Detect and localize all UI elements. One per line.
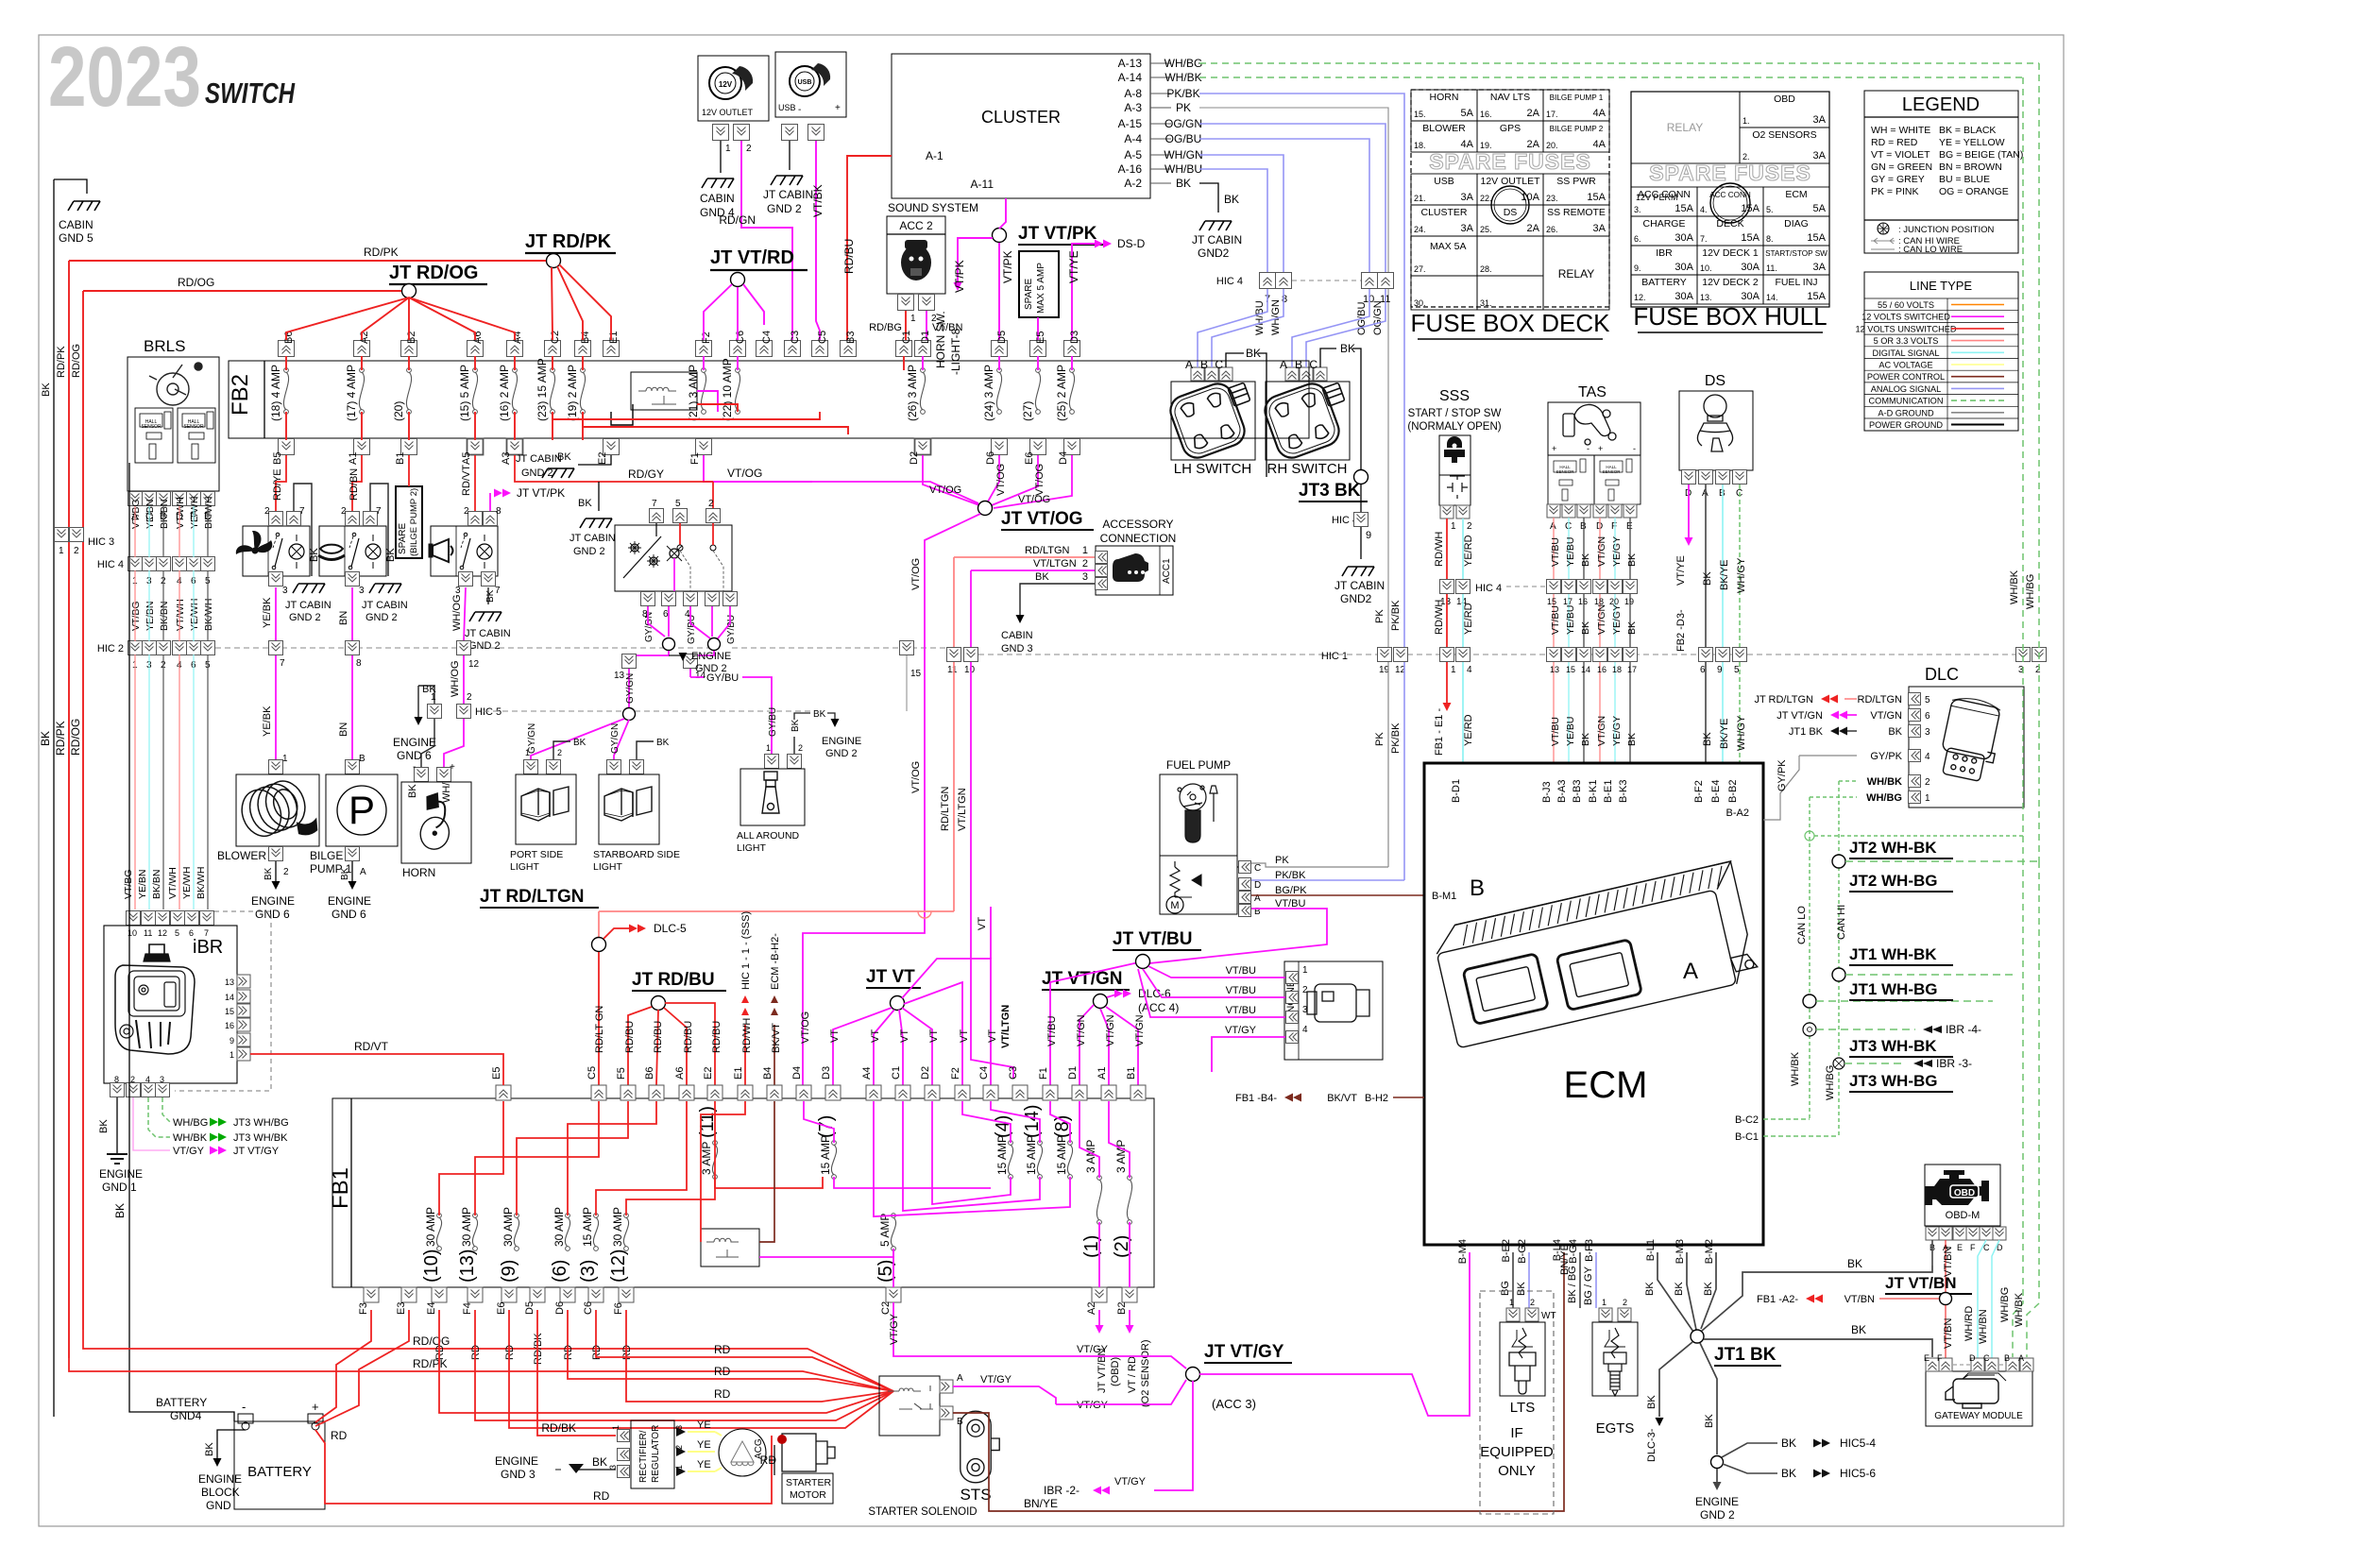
svg-text:18: 18 (1612, 665, 1622, 674)
svg-text:ALL AROUND: ALL AROUND (737, 830, 800, 841)
svg-text:3: 3 (1082, 571, 1088, 583)
wire BK TAS (1583, 518, 1585, 580)
iBR pin 14 (237, 990, 250, 1003)
svg-text:24.: 24. (1414, 225, 1426, 234)
svg-text:WH/BU: WH/BU (1254, 300, 1266, 335)
svg-text:HORN: HORN (402, 866, 435, 879)
svg-text:RD/BU: RD/BU (653, 1021, 664, 1053)
svg-text:3: 3 (160, 1075, 164, 1084)
svg-text:BK: BK (113, 1203, 127, 1218)
iBR pin 15 (237, 1004, 250, 1017)
FB2 top connector D5 (992, 341, 1008, 357)
svg-text:BN/YE: BN/YE (1024, 1497, 1058, 1510)
svg-text:E4: E4 (426, 1302, 437, 1315)
iBR VT/GY to JT VT/GY (133, 1097, 170, 1150)
svg-text:BK: BK (1702, 571, 1713, 586)
legend junction symbol (1878, 223, 1889, 234)
svg-text:RH SWITCH: RH SWITCH (1267, 461, 1348, 477)
svg-text:(3): (3) (578, 1260, 599, 1283)
svg-text:3: 3 (455, 586, 461, 596)
svg-text:13: 13 (1550, 665, 1559, 674)
svg-text:5A: 5A (1813, 203, 1827, 214)
svg-text:IBR: IBR (1656, 247, 1673, 259)
svg-text:JT VT/GN: JT VT/GN (1042, 969, 1123, 989)
svg-text:(16) 2 AMP: (16) 2 AMP (498, 365, 511, 421)
FB2 fuse (15) 5 AMP (473, 368, 478, 373)
svg-text:: JUNCTION POSITION: : JUNCTION POSITION (1898, 225, 1994, 235)
svg-text:A: A (1280, 358, 1287, 371)
svg-text:LEGEND: LEGEND (1902, 94, 1980, 115)
FB2 box (229, 361, 1309, 438)
iBR pin 13 (237, 975, 250, 988)
svg-text:5: 5 (1925, 695, 1930, 705)
svg-text:: CAN LO WIRE: : CAN LO WIRE (1898, 245, 1963, 255)
svg-text:16.: 16. (1480, 110, 1492, 119)
svg-text:A-2: A-2 (1124, 177, 1142, 190)
svg-text:BG / GY: BG / GY (1583, 1266, 1594, 1305)
svg-text:YE/GY: YE/GY (1611, 604, 1623, 635)
OBD-M box (1925, 1164, 2000, 1226)
BRLS pin C (143, 492, 157, 506)
svg-text:WH/BK: WH/BK (1164, 71, 1201, 84)
FB1 box (332, 1098, 1154, 1287)
svg-text:FB1 -A2-: FB1 -A2- (1757, 1294, 1798, 1305)
svg-text:FUSE BOX HULL: FUSE BOX HULL (1633, 302, 1827, 331)
FB1 relay wires (715, 1177, 823, 1188)
BRLS hall sensor A (135, 408, 173, 463)
svg-text:RD = RED: RD = RED (1871, 137, 1918, 148)
svg-text:GND 2: GND 2 (1700, 1508, 1735, 1521)
FB2 top connector E1 (603, 341, 620, 357)
svg-text:3 AMP: 3 AMP (1084, 1140, 1097, 1173)
FB2 fuse (25) 2 AMP (1070, 368, 1075, 373)
wire VT/OG D2 to junction (923, 455, 979, 505)
svg-text:BK: BK (98, 1119, 110, 1133)
svg-text:C6: C6 (735, 331, 746, 344)
port side light (516, 774, 576, 844)
FB2 top connector F2 (696, 341, 712, 357)
svg-text:JT3 BK: JT3 BK (1299, 481, 1361, 501)
svg-text:JT1 WH-BG: JT1 WH-BG (1849, 980, 1938, 998)
gateway dashed link (1953, 1364, 1970, 1366)
svg-text:WH/BG: WH/BG (1825, 1065, 1836, 1100)
wires BK to HIC5 (1722, 1443, 1777, 1457)
svg-text:HIC 5: HIC 5 (475, 706, 501, 718)
svg-text:JT2 WH-BG: JT2 WH-BG (1849, 872, 1938, 890)
JT cabin gnd2 below JT3 (1342, 567, 1374, 576)
wire WH/GN jog to LH B (1212, 289, 1283, 367)
FB2 bottom connector D6 (992, 439, 1008, 455)
svg-text:RD/PK: RD/PK (54, 721, 67, 756)
JT3 WH-BK junction (1803, 1023, 1816, 1036)
svg-text:RD/PK: RD/PK (364, 246, 399, 259)
svg-text:VT/YE: VT/YE (1675, 555, 1687, 586)
svg-text:C1: C1 (901, 331, 912, 344)
svg-text:12 VOLTS SWITCHED: 12 VOLTS SWITCHED (1861, 313, 1950, 322)
wire RD/BK D5 to rectifier (537, 1346, 616, 1436)
svg-text:2: 2 (264, 506, 270, 517)
svg-text:15 AMP: 15 AMP (581, 1207, 594, 1247)
deck 12v outlet circle (1491, 186, 1529, 224)
svg-text:DLC: DLC (1925, 665, 1959, 684)
svg-text:VT/GY: VT/GY (1077, 1344, 1109, 1355)
svg-text:RD: RD (331, 1429, 348, 1442)
JT VT/RD junction (731, 273, 745, 287)
svg-text:OBD: OBD (1774, 93, 1795, 105)
JT RD/PK fan to C2 B4 E1 (552, 267, 552, 340)
svg-text:20: 20 (1609, 597, 1619, 606)
FB2 top connector B6 (279, 341, 295, 357)
fuel pump lower block (1160, 856, 1237, 914)
wire BK JT1 to DLC-3 (1659, 1342, 1692, 1417)
svg-text:VT/YE: VT/YE (1067, 250, 1080, 283)
svg-text:2: 2 (1302, 985, 1308, 995)
svg-text:C: C (1983, 1353, 1990, 1363)
svg-text:RD: RD (593, 1489, 610, 1503)
svg-text:30A: 30A (1674, 232, 1693, 244)
svg-text:BG/PK: BG/PK (1275, 885, 1307, 896)
svg-text:BK: BK (1888, 726, 1902, 738)
svg-text:PK: PK (1275, 855, 1289, 866)
svg-text:11: 11 (947, 665, 958, 675)
FB1 top connector C5 (591, 1085, 606, 1100)
FB1 bottom connector F4 (467, 1287, 483, 1302)
iBR box (104, 926, 237, 1083)
svg-text:E5: E5 (491, 1067, 502, 1079)
wire GY/PK to B-A2 (1763, 756, 1799, 820)
svg-text:B-M1: B-M1 (1432, 891, 1456, 902)
svg-text:JT3 WH/BK: JT3 WH/BK (233, 1132, 288, 1144)
svg-text:PK/BK: PK/BK (1166, 87, 1199, 100)
svg-text:C3: C3 (1008, 1066, 1019, 1079)
svg-text:C2: C2 (550, 331, 561, 344)
svg-text:14.: 14. (1766, 293, 1778, 302)
wire BK TAS (1629, 518, 1631, 580)
svg-text:VT: VT (899, 1029, 910, 1043)
svg-text:VT/WH: VT/WH (167, 867, 178, 899)
svg-text:HIC 2: HIC 2 (97, 643, 124, 654)
svg-text:RD/BK: RD/BK (533, 1333, 544, 1365)
svg-text:JT VT/BU: JT VT/BU (1113, 929, 1192, 949)
FB2 fuse (27) (1036, 368, 1041, 373)
svg-text:5 AMP: 5 AMP (878, 1214, 892, 1247)
svg-text:B-M3: B-M3 (1674, 1239, 1686, 1264)
svg-text:GND 5: GND 5 (59, 231, 93, 245)
svg-text:iBR: iBR (193, 937, 223, 958)
svg-text:(NORMALY OPEN): (NORMALY OPEN) (1407, 421, 1501, 433)
wire VT/BU to F1 (1050, 961, 1143, 1085)
svg-text:ACC 2: ACC 2 (899, 219, 933, 232)
svg-text:YE/BU: YE/BU (1565, 536, 1576, 567)
svg-text:ECM: ECM (1564, 1064, 1648, 1106)
svg-text:30 AMP: 30 AMP (501, 1207, 515, 1247)
svg-text:JT VT/PK: JT VT/PK (517, 486, 565, 500)
svg-text:VT: VT (987, 1029, 998, 1043)
iBR actuator drawing (115, 944, 195, 1054)
svg-text:YE/RD: YE/RD (1463, 535, 1474, 567)
FB2 top connector C3 (785, 341, 801, 357)
svg-text:JT VT/RD: JT VT/RD (710, 247, 794, 268)
svg-text:3: 3 (1302, 1005, 1308, 1015)
svg-text:VT/PK: VT/PK (953, 260, 966, 293)
wire BN bilge pin3 to HIC2 (351, 587, 353, 641)
wire RD/OG main (83, 290, 401, 292)
wire VT/LTGN to ACC1 (971, 569, 1095, 571)
svg-text:A: A (2018, 1353, 2024, 1363)
svg-text:23.: 23. (1546, 194, 1558, 203)
svg-text:12V OUTLET: 12V OUTLET (702, 108, 754, 117)
svg-text:YE/WH: YE/WH (181, 867, 193, 899)
svg-text:HIC 4: HIC 4 (1475, 583, 1502, 594)
svg-text:VT/WH: VT/WH (175, 599, 186, 631)
fuse box hull table (1631, 92, 1829, 307)
iBR pin 16 (237, 1018, 250, 1031)
svg-text:YE/GY: YE/GY (1611, 716, 1623, 746)
BRLS column wires (134, 506, 136, 557)
svg-text:VT/GY: VT/GY (1077, 1400, 1109, 1411)
svg-text:2023: 2023 (48, 30, 201, 125)
svg-text:DIAG: DIAG (1784, 218, 1809, 229)
svg-text:3A: 3A (1813, 114, 1827, 126)
svg-text:WH/BU: WH/BU (1164, 162, 1202, 176)
wire VT/YE DS to FB2-D3 (1688, 484, 1690, 538)
svg-text:BK: BK (573, 738, 586, 748)
svg-text:WH/BG: WH/BG (173, 1117, 208, 1129)
svg-text:WH = WHITE: WH = WHITE (1871, 125, 1930, 136)
svg-text:BATTERY: BATTERY (1641, 277, 1686, 288)
svg-text:IBR -3-: IBR -3- (1936, 1057, 1972, 1070)
svg-text:+: + (450, 762, 455, 773)
svg-text:JT VT: JT VT (866, 967, 915, 987)
nav switch BK gnd (598, 482, 600, 511)
svg-text:3: 3 (608, 1465, 618, 1470)
svg-text:JT RD/LTGN: JT RD/LTGN (480, 887, 584, 907)
svg-text:15 AMP: 15 AMP (819, 1135, 832, 1175)
wire BK horn pin7 to gnd (487, 587, 489, 604)
svg-text:12.: 12. (1634, 293, 1646, 302)
svg-text:OG/BU: OG/BU (1165, 132, 1202, 145)
svg-text:SWITCH: SWITCH (205, 76, 295, 110)
svg-text:DLC-5: DLC-5 (654, 922, 687, 935)
svg-text:(19) 2 AMP: (19) 2 AMP (566, 365, 579, 421)
svg-text:B-M4: B-M4 (1457, 1239, 1469, 1264)
blower component (269, 760, 283, 774)
svg-text:GND 2: GND 2 (289, 612, 321, 623)
all around light CBs (765, 755, 779, 769)
svg-text:BATTERY: BATTERY (247, 1464, 312, 1480)
svg-text:WH/OG: WH/OG (451, 595, 463, 632)
svg-text:BK/VT: BK/VT (1327, 1093, 1357, 1104)
svg-text:12V DECK 1: 12V DECK 1 (1702, 247, 1759, 259)
svg-text:WH/BK: WH/BK (1867, 776, 1902, 788)
svg-text:GY/BU: GY/BU (687, 615, 697, 644)
svg-text:OBD: OBD (1954, 1188, 1975, 1198)
svg-text:B-E2: B-E2 (1501, 1239, 1512, 1262)
FB1 top connector C1 (895, 1085, 910, 1100)
svg-text:27.: 27. (1414, 264, 1426, 274)
svg-text:B1: B1 (1126, 1067, 1137, 1079)
svg-text:15A: 15A (1807, 232, 1826, 244)
svg-text:IBR -4-: IBR -4- (1946, 1023, 1981, 1036)
svg-text:USB: USB (1434, 176, 1454, 187)
svg-text:ENGINE: ENGINE (495, 1454, 538, 1468)
wire RD/LTGN down2 (953, 662, 955, 911)
FB2 bottom connector B5 (279, 439, 295, 455)
svg-text:BK/YE: BK/YE (1719, 719, 1730, 749)
svg-text:BK: BK (1703, 1282, 1714, 1296)
FB2 fuse (16) 2 AMP (513, 368, 518, 373)
iBR dashed harness outline (175, 911, 271, 1091)
svg-text:1: 1 (1451, 665, 1456, 675)
wire WH/OG horn pin3 to HIC2 (464, 587, 466, 641)
svg-text:VT/BG: VT/BG (130, 601, 142, 631)
svg-text:YE = YELLOW: YE = YELLOW (1939, 137, 2005, 148)
svg-text:3: 3 (359, 586, 365, 596)
cluster box (892, 54, 1150, 198)
wire WH/OG HIC5-2 to horn plus (444, 719, 464, 767)
svg-text:NAV LTS: NAV LTS (1490, 92, 1530, 103)
svg-text:GY = GREY: GY = GREY (1871, 174, 1925, 185)
svg-text:JT RD/BU: JT RD/BU (632, 970, 715, 990)
FB1 top connector D4 (796, 1085, 811, 1100)
wire VT/GY to engine connector pin4 (1212, 1037, 1285, 1072)
svg-text:(O2 SENSOR): (O2 SENSOR) (1140, 1339, 1151, 1407)
svg-text:BK = BLACK: BK = BLACK (1939, 125, 1996, 136)
wire GY/GN to port lights (629, 651, 669, 655)
wire WH/BU (1199, 169, 1267, 272)
wire VT/GY junction right to B-M4 (1199, 1252, 1470, 1416)
wire PK/BK fuel pump (1251, 879, 1404, 881)
svg-text:YE/WH: YE/WH (189, 497, 200, 529)
svg-text:BK: BK (39, 731, 52, 746)
svg-text:VT: VT (870, 1029, 881, 1043)
svg-text:(18) 4 AMP: (18) 4 AMP (269, 365, 282, 421)
wire YE/BU TAS (1568, 518, 1570, 580)
svg-text:4: 4 (1925, 752, 1930, 762)
wire VT/LTGN down2 (971, 662, 1013, 1079)
svg-text:YE/BU: YE/BU (1565, 716, 1576, 746)
svg-text:VT: VT (928, 1029, 940, 1043)
svg-text:F: F (1937, 1353, 1943, 1363)
svg-text:BK: BK (656, 738, 670, 748)
FB1 bottom connector C2 (886, 1287, 901, 1302)
wire BK engine block gnd (217, 1430, 246, 1459)
wire VT/GY from C2 down (892, 1249, 894, 1287)
ECM B-H2 arrow (773, 1025, 775, 1085)
svg-text:GND 6: GND 6 (331, 908, 366, 921)
wire RD/YE B5 to blower sw (276, 455, 286, 511)
svg-text:WH/BG: WH/BG (1866, 792, 1902, 804)
DLC box (1909, 687, 2024, 807)
svg-text:VT/BU: VT/BU (1226, 985, 1256, 996)
JT RD/OG junction (402, 284, 416, 298)
svg-text:BILGE PUMP 2: BILGE PUMP 2 (1550, 125, 1604, 133)
svg-text:GPS: GPS (1500, 123, 1521, 134)
svg-text:A2: A2 (1086, 1302, 1097, 1315)
svg-text:3.: 3. (1634, 205, 1641, 214)
JT VT/GY junction (1186, 1368, 1200, 1382)
iBR pin 1 (237, 1047, 250, 1061)
svg-text:BK: BK (309, 548, 320, 562)
svg-text:VT/BU: VT/BU (1226, 1005, 1256, 1016)
FB1 top connector A6 (679, 1085, 694, 1100)
svg-text:BK: BK (1847, 1257, 1862, 1270)
svg-text:YE/BN: YE/BN (144, 601, 156, 631)
svg-text:VT: VT (959, 1029, 970, 1043)
svg-text:2: 2 (798, 743, 803, 753)
nav light switch assembly (615, 525, 732, 591)
svg-text:-LIGHT-8-: -LIGHT-8- (949, 325, 962, 375)
svg-text:M: M (1170, 900, 1179, 911)
wire BK JT1 down to engine gnd2 (1700, 1343, 1717, 1454)
wire BK/YE DS (1722, 484, 1724, 648)
12V outlet component (698, 56, 769, 121)
wires DS to ECM (1705, 662, 1707, 763)
svg-text:D3: D3 (1069, 331, 1080, 344)
svg-text:GND 3: GND 3 (501, 1468, 535, 1481)
svg-text:HIC 4: HIC 4 (97, 559, 124, 570)
svg-text:A-1: A-1 (926, 149, 943, 162)
hic4 dashed link (1292, 280, 1362, 281)
FB2 bottom connector A5 (467, 439, 484, 455)
svg-text:OG/GN: OG/GN (1372, 300, 1384, 335)
svg-text:BK: BK (1781, 1436, 1796, 1450)
wire VT/BN junction to gateway F (1945, 1357, 1946, 1364)
svg-text:B-K1: B-K1 (1588, 780, 1599, 803)
hull relay cell (1631, 92, 1740, 163)
svg-text:(ACC 4): (ACC 4) (1138, 1001, 1179, 1014)
svg-text:26.: 26. (1546, 225, 1558, 234)
svg-text:14: 14 (1581, 665, 1590, 674)
FB1 bottom connector E3 (401, 1287, 416, 1302)
svg-text:GY/PK: GY/PK (1870, 751, 1902, 762)
bilge switch (319, 526, 386, 576)
svg-text:VT/OG: VT/OG (1018, 494, 1050, 505)
JT VT/BU junction (1136, 955, 1150, 969)
wire spare to FB2 E5 (1037, 317, 1039, 340)
svg-text:D3: D3 (821, 1066, 832, 1079)
svg-text:RD: RD (714, 1365, 731, 1378)
svg-text:2: 2 (557, 748, 562, 757)
svg-text:SSS: SSS (1439, 388, 1470, 404)
wire RD/VT A5 to horn sw (474, 455, 476, 511)
FB1 top connector C3 (1012, 1085, 1028, 1100)
svg-text:8.: 8. (1766, 234, 1774, 244)
JT VT fan (833, 1008, 892, 1085)
svg-text:C: C (1215, 358, 1223, 371)
svg-text:BK: BK (1702, 732, 1713, 746)
wire VT/BU fuel pump (1149, 909, 1327, 963)
svg-text:YE/RD: YE/RD (1463, 603, 1474, 635)
wire BK blower to engine gnd6 (275, 861, 277, 882)
svg-text:15 AMP: 15 AMP (995, 1135, 1009, 1175)
svg-text:1: 1 (282, 754, 288, 764)
FB1 top connector F2 (955, 1085, 970, 1100)
svg-text:YE/BK: YE/BK (262, 597, 273, 628)
wire BK OBD-B (1931, 1240, 1933, 1266)
svg-text:17: 17 (1627, 665, 1637, 674)
HIC1 connectors 3 2 right (2016, 648, 2031, 662)
svg-text:F5: F5 (616, 1067, 627, 1079)
svg-text:BK/BN: BK/BN (159, 499, 170, 529)
JT cabin gnd2 (cluster) (1199, 221, 1232, 230)
svg-text:5: 5 (1734, 665, 1740, 675)
svg-text:VT/GY: VT/GY (173, 1146, 205, 1157)
svg-text:GND4: GND4 (170, 1409, 202, 1422)
svg-text:VT/GN: VT/GN (1134, 1014, 1146, 1046)
wire PK fuel pump (1251, 863, 1388, 867)
svg-text:B-A3: B-A3 (1556, 780, 1568, 803)
